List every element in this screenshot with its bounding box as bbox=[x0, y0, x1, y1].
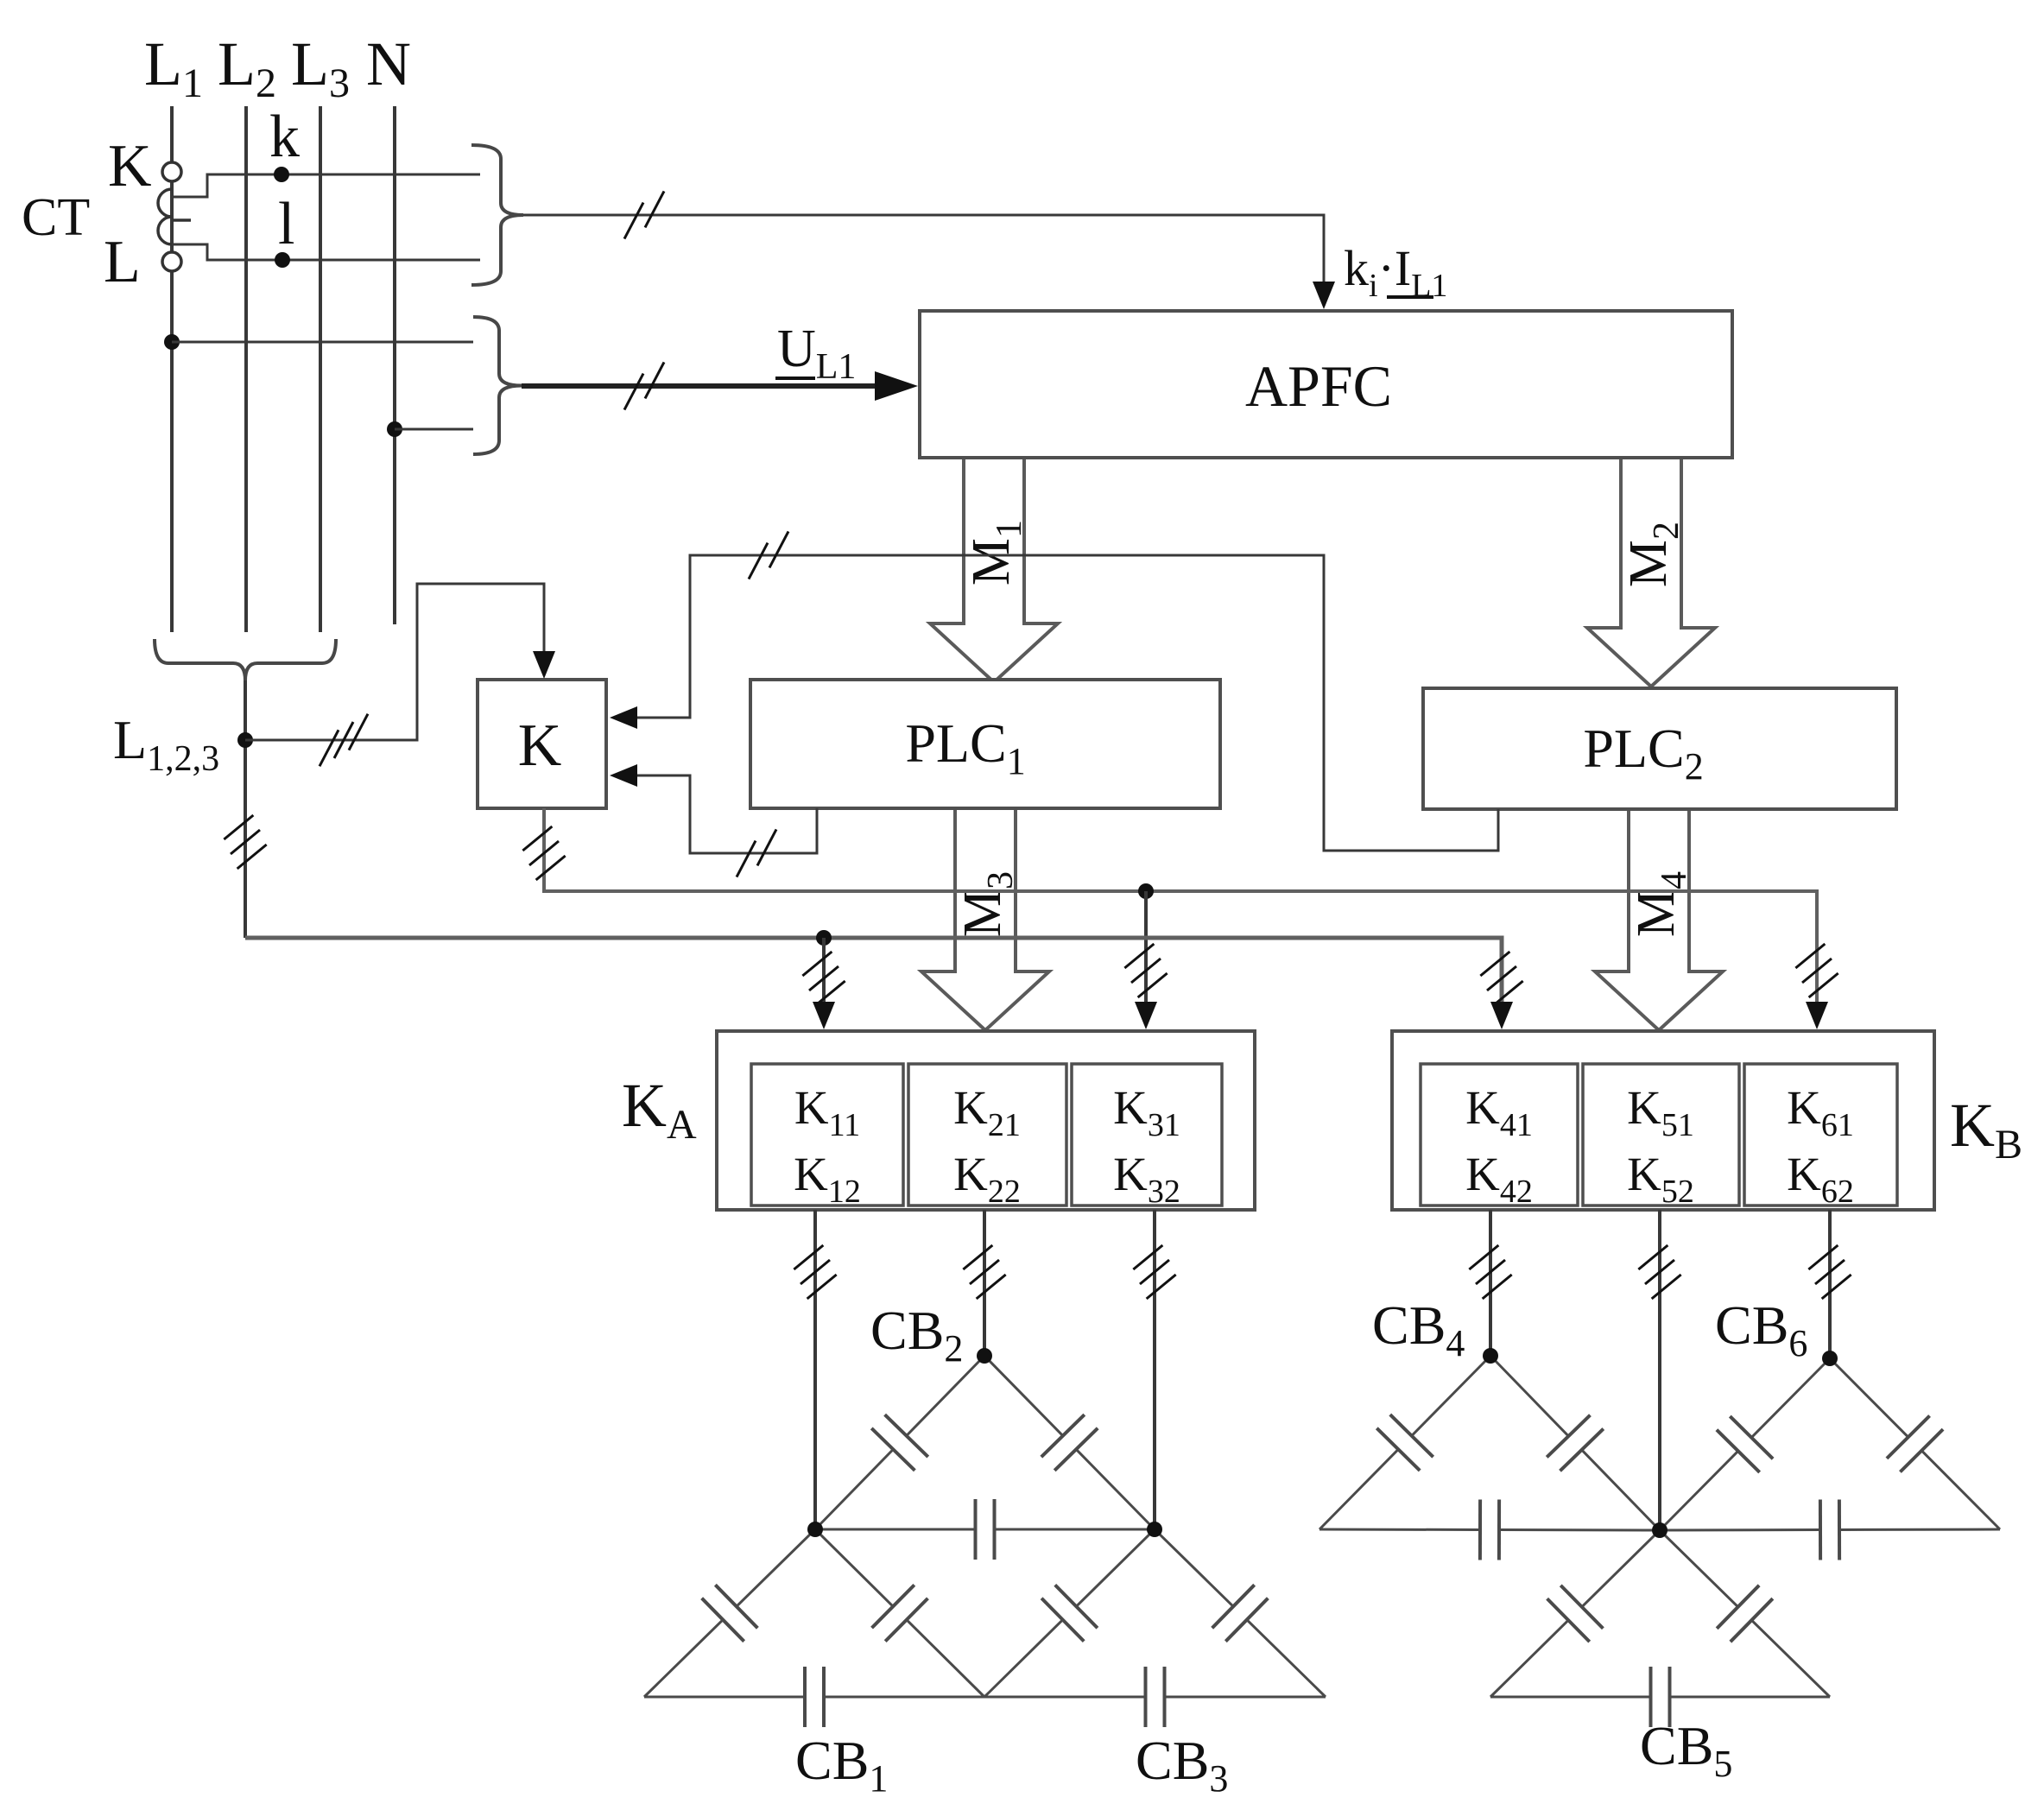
node l bbox=[275, 252, 290, 268]
svg-text:APFC: APFC bbox=[1245, 353, 1392, 419]
wire CB2 feeder bbox=[983, 1210, 986, 1356]
wire CB4 feeder bbox=[1489, 1210, 1492, 1356]
node CB4 apex bbox=[1483, 1348, 1498, 1364]
node CB1 apex bbox=[807, 1522, 823, 1537]
wire ki*IL1 current signal bbox=[523, 215, 1324, 285]
triple slash on L1,2,3 bus drop bbox=[224, 815, 266, 869]
triple slash on CB2 feeder bbox=[963, 1245, 1005, 1299]
capacitor bank CB6 bbox=[1660, 1358, 2000, 1560]
wire PLC2 to relay K bbox=[632, 555, 1498, 851]
wire CB5 feeder bbox=[1658, 1210, 1661, 1530]
brace for CT secondary pair bbox=[471, 145, 523, 285]
arrow into relay K top bbox=[533, 651, 555, 679]
block arrow M3 bbox=[921, 808, 1049, 1030]
node N voltage tap bbox=[387, 421, 402, 437]
underbrace L1,2,3 bbox=[155, 639, 336, 680]
block PLC2 bbox=[1423, 688, 1896, 809]
svg-text:L: L bbox=[104, 229, 141, 295]
triple slash on CB5 feeder bbox=[1638, 1245, 1680, 1299]
node CB2 apex bbox=[977, 1348, 992, 1364]
triple slash on relay K bottom drop bbox=[522, 826, 565, 880]
wire L3 bbox=[319, 106, 322, 632]
block arrow M4 bbox=[1595, 809, 1723, 1030]
current transformer CT coil bbox=[158, 189, 191, 244]
node L1 voltage tap bbox=[164, 334, 180, 350]
capacitor bank CB1 bbox=[644, 1529, 984, 1727]
wire K bus branch to KA bbox=[1144, 891, 1148, 1003]
wire N voltage tap bbox=[395, 428, 473, 431]
wire CB3 feeder bbox=[1153, 1210, 1156, 1529]
wire CB1 feeder bbox=[813, 1210, 817, 1529]
contactor K11 K12 box bbox=[751, 1064, 903, 1206]
wire CB6 feeder bbox=[1828, 1210, 1832, 1358]
wire L1 bbox=[170, 106, 174, 632]
node CB3 apex bbox=[1147, 1522, 1162, 1537]
wire L1,2,3 to relay K bbox=[245, 584, 544, 740]
wire L2 bbox=[244, 106, 248, 632]
double slash on PLC2-K wire bbox=[749, 531, 788, 579]
current transformer CT primary terminal L bbox=[162, 252, 181, 271]
arrow into APFC top bbox=[1313, 282, 1335, 309]
triple slash on KB right arrow bbox=[1795, 944, 1838, 997]
node CB6 apex bbox=[1822, 1351, 1838, 1366]
svg-text:K: K bbox=[108, 133, 152, 199]
triple slash on KA left arrow bbox=[802, 952, 845, 1005]
capacitor bank CB4 bbox=[1319, 1356, 1660, 1560]
wire CT secondary l bbox=[174, 244, 480, 260]
double slash on PLC1-K wire bbox=[737, 829, 776, 877]
capacitor bank CB3 bbox=[984, 1529, 1326, 1727]
triple slash on KB left arrow bbox=[1480, 952, 1522, 1005]
svg-text:K: K bbox=[518, 712, 562, 779]
wire UL1 voltage signal bbox=[522, 383, 898, 389]
brace for voltage pair bbox=[473, 317, 522, 454]
triple slash on CB3 feeder bbox=[1133, 1245, 1175, 1299]
current transformer CT primary terminal K bbox=[162, 162, 181, 181]
arrow into KB right bbox=[1806, 1002, 1828, 1029]
capacitor bank CB5 bbox=[1490, 1530, 1830, 1727]
block arrow M1 bbox=[930, 458, 1058, 682]
arrow into relay K upper right bbox=[610, 706, 637, 729]
wire underbrace to bus bbox=[244, 680, 247, 938]
block APFC bbox=[920, 311, 1732, 458]
node L1,2,3 bbox=[237, 732, 253, 748]
wire PLC1 to relay K bbox=[632, 775, 817, 853]
double slash on voltage signal wire bbox=[624, 362, 664, 409]
node on L1,2,3 bus bbox=[816, 930, 832, 946]
contactor group KB outer box bbox=[1392, 1031, 1934, 1210]
capacitor bank CB2 bbox=[815, 1356, 1155, 1560]
arrow into KA right bbox=[1135, 1002, 1157, 1029]
wire L123 bus branch to KA bbox=[822, 938, 826, 1003]
triple slash on CB1 feeder bbox=[794, 1245, 836, 1299]
wire N bbox=[393, 106, 396, 624]
contactor K41 K42 box bbox=[1421, 1064, 1578, 1206]
node CB5 apex bbox=[1652, 1522, 1667, 1538]
svg-text:k: k bbox=[269, 104, 300, 170]
triple slash on KA right arrow bbox=[1124, 944, 1167, 997]
node on K bus bbox=[1138, 883, 1154, 899]
double slash on current signal wire bbox=[624, 191, 664, 238]
node k bbox=[274, 167, 289, 182]
triple slash on L1,2,3 wire bbox=[320, 714, 368, 767]
contactor group KA outer box bbox=[717, 1031, 1255, 1210]
contactor K61 K62 box bbox=[1744, 1064, 1897, 1206]
contactor K51 K52 box bbox=[1583, 1064, 1739, 1206]
relay K box bbox=[478, 680, 606, 808]
arrow into relay K lower right bbox=[610, 764, 637, 787]
contactor K21 K22 box bbox=[908, 1064, 1066, 1206]
svg-text:CT: CT bbox=[22, 188, 90, 247]
svg-text:N: N bbox=[366, 29, 411, 98]
block arrow M2 bbox=[1587, 458, 1715, 687]
arrow into KA left bbox=[813, 1002, 835, 1029]
wire L1 voltage tap bbox=[172, 341, 473, 344]
wire L1,2,3 bus bbox=[245, 938, 1502, 1003]
wire relay K bottom bus bbox=[544, 808, 1817, 1003]
triple slash on CB4 feeder bbox=[1469, 1245, 1511, 1299]
wire CT secondary k bbox=[174, 174, 480, 197]
arrow into KB left bbox=[1490, 1002, 1513, 1029]
triple slash on CB6 feeder bbox=[1808, 1245, 1851, 1299]
contactor K31 K32 box bbox=[1072, 1064, 1222, 1206]
arrow into APFC left bbox=[875, 371, 918, 401]
block PLC1 bbox=[750, 680, 1220, 808]
svg-text:l: l bbox=[278, 191, 294, 257]
